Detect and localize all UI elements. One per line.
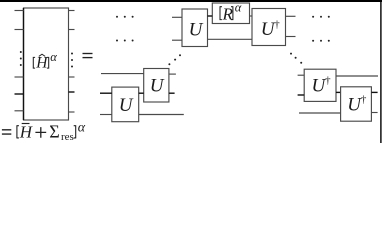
wire stub stair upper right top	[169, 73, 176, 75]
wire Udag right 1	[286, 15, 296, 17]
wire stub Udag stair lower right top	[371, 91, 377, 93]
svg-text:Σ: Σ	[49, 122, 59, 142]
wire U left 1	[172, 16, 182, 18]
box Udag stair lower	[341, 87, 372, 121]
box U stair lower	[112, 87, 139, 122]
wire R to Udag	[250, 15, 253, 17]
box Udag top	[252, 9, 286, 46]
vdots left of H	[20, 51, 22, 66]
box Udag stair upper	[304, 69, 336, 101]
wire U to Udag	[208, 38, 253, 40]
vdots right of H	[71, 53, 73, 68]
wire H left 5	[15, 110, 24, 112]
box U stair upper	[144, 69, 169, 103]
label Udag stair lower	[347, 94, 367, 116]
svg-text:H: H	[19, 123, 34, 142]
wire H right 5	[69, 111, 75, 113]
svg-text:†: †	[361, 94, 367, 106]
wire stub Udag stair upper left top	[298, 74, 305, 76]
box H	[24, 8, 69, 120]
box U top	[182, 9, 208, 47]
wire H left 1	[15, 10, 24, 12]
wire connector stair Udag	[336, 91, 341, 93]
wire H left 4	[15, 93, 24, 95]
ddots right diagonal	[290, 53, 302, 64]
cdots top left row2	[116, 40, 134, 42]
wire H right 3	[69, 76, 75, 78]
svg-text:R: R	[222, 5, 234, 24]
wire stair lower left bottom	[100, 114, 112, 116]
label of box H	[33, 50, 57, 72]
cdots top right row1	[312, 16, 330, 18]
svg-text:U: U	[189, 20, 204, 41]
box R	[212, 3, 249, 24]
wire stair lower left top	[100, 92, 112, 94]
cdots top right row2	[312, 40, 330, 42]
wire connector stair U	[139, 92, 144, 94]
wire U left 2	[172, 39, 182, 41]
wire stub Udag stair lower right bottom	[371, 112, 377, 114]
ddots left diagonal	[168, 54, 181, 65]
label Udag stair upper	[312, 75, 332, 97]
svg-text:U: U	[150, 76, 165, 97]
svg-text:α: α	[235, 0, 242, 14]
wire stub Udag stair upper left bottom	[298, 94, 305, 96]
wire stub stair upper right bottom	[169, 92, 175, 94]
equals sign	[83, 54, 93, 58]
cdots top left row1	[116, 16, 134, 18]
svg-text:†: †	[325, 75, 331, 87]
wire Udag stair upper right top	[336, 75, 378, 77]
wire H right 2	[69, 29, 75, 31]
wire U to R	[208, 15, 213, 17]
wire stair lower right bottom	[139, 114, 184, 116]
svg-text:†: †	[274, 19, 280, 31]
wire Udag stair lower left	[299, 112, 341, 114]
wire H left 3	[15, 76, 24, 78]
svg-text:α: α	[78, 120, 86, 135]
label R	[220, 0, 242, 23]
svg-text:H: H	[35, 55, 48, 72]
wire H left 2	[15, 29, 24, 31]
wire H right 4	[69, 91, 75, 93]
bottom formula	[2, 120, 86, 143]
frame top border	[0, 0, 382, 2]
svg-text:res: res	[61, 131, 74, 143]
svg-text:α: α	[50, 50, 57, 64]
wire H right 1	[69, 10, 75, 12]
frame right border	[380, 0, 382, 143]
wire Udag right 2	[286, 36, 296, 38]
wire stair left top	[101, 73, 144, 75]
label Udag top	[261, 19, 281, 41]
svg-text:U: U	[119, 95, 134, 116]
